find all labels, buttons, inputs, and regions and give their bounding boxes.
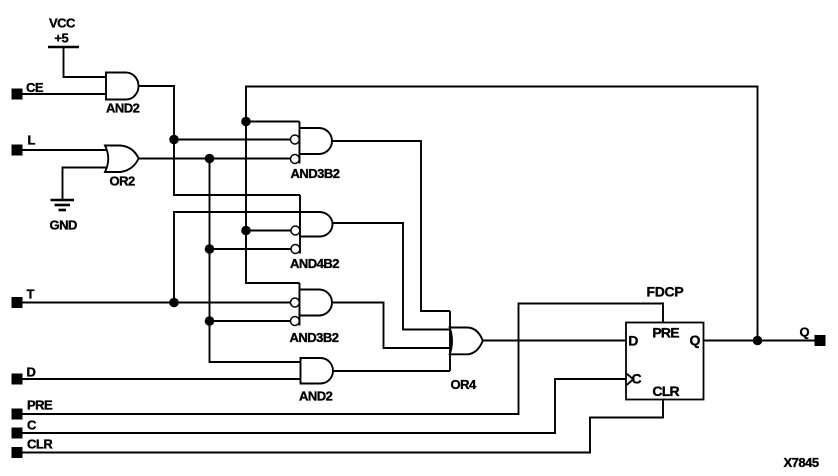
svg-text:D: D bbox=[628, 333, 638, 349]
junction dot bbox=[169, 135, 179, 145]
wire AND3B2 lower output to OR4 input 3 bbox=[332, 303, 450, 349]
input pad PRE bbox=[12, 409, 23, 420]
and-gate AND3B2 (upper) bbox=[290, 122, 339, 182]
or-gate OR4 bbox=[450, 311, 483, 392]
or-gate OR2 (L gate) bbox=[105, 146, 139, 173]
svg-text:OR2: OR2 bbox=[110, 174, 136, 189]
input pad D bbox=[12, 374, 23, 385]
wire tap T to AND4B2 input 2 bbox=[174, 212, 300, 303]
and-gate AND2 (D gate) bbox=[299, 358, 333, 404]
wire Q output bbox=[704, 340, 815, 342]
svg-text:AND2: AND2 bbox=[299, 389, 333, 404]
junction dot bbox=[169, 298, 179, 308]
svg-text:AND2: AND2 bbox=[106, 101, 140, 116]
svg-text:X7845: X7845 bbox=[784, 455, 819, 470]
svg-text:Q: Q bbox=[690, 332, 701, 348]
wire D to AND2 input 2 bbox=[23, 378, 301, 380]
svg-text:GND: GND bbox=[50, 218, 78, 233]
input pad T bbox=[12, 297, 23, 308]
wire AND2 output to OR4 input 4 bbox=[333, 370, 450, 372]
ground GND bbox=[50, 200, 78, 233]
svg-text:FDCP: FDCP bbox=[647, 284, 684, 300]
wire CE to AND2 input 2 bbox=[23, 93, 107, 95]
svg-text:Q: Q bbox=[800, 324, 810, 339]
svg-text:CE: CE bbox=[26, 80, 44, 95]
wire tap to AND4B2 input 3 bbox=[246, 230, 291, 232]
wire L to OR2 input 1 bbox=[23, 149, 110, 151]
and-gate AND2 (CE gate) bbox=[106, 73, 139, 100]
wire feedback Q net bbox=[246, 87, 758, 341]
and-gate AND3B2 (lower) bbox=[290, 283, 339, 345]
svg-text:OR4: OR4 bbox=[451, 377, 478, 392]
wire VCC to AND2 input 1 bbox=[64, 47, 107, 77]
svg-text:PRE: PRE bbox=[652, 325, 679, 341]
svg-text:CLR: CLR bbox=[652, 383, 679, 399]
wire AND4B2 output to OR4 input 2 bbox=[333, 223, 451, 330]
wire OR2 net vertical to AND2 input 1 bbox=[210, 159, 301, 363]
svg-text:AND4B2: AND4B2 bbox=[290, 256, 339, 271]
junction dot bbox=[241, 226, 251, 236]
input pad CE bbox=[12, 89, 23, 100]
wire tap to AND4B2 input 4 bbox=[210, 248, 291, 250]
wire CLR to FDCP CLR bbox=[23, 400, 664, 453]
wire OR2 output to AND3B2 input 3 bbox=[139, 158, 291, 160]
svg-text:+5: +5 bbox=[54, 31, 68, 46]
svg-text:CLR: CLR bbox=[27, 437, 53, 452]
power symbol VCC bbox=[48, 15, 79, 47]
svg-text:L: L bbox=[28, 133, 36, 148]
svg-text:T: T bbox=[27, 286, 35, 301]
clock triangle pin C bbox=[627, 374, 633, 385]
junction dot Q feedback bbox=[753, 336, 763, 346]
and-gate AND4B2 bbox=[290, 195, 339, 271]
output pad Q bbox=[815, 335, 826, 346]
wire PRE to FDCP PRE bbox=[23, 304, 664, 415]
input pad L bbox=[12, 145, 23, 156]
svg-text:PRE: PRE bbox=[27, 398, 53, 413]
svg-text:D: D bbox=[27, 365, 36, 380]
junction dot bbox=[205, 154, 215, 164]
wire OR2 input 2 to GND bbox=[63, 168, 109, 200]
wire OR4 output to FDCP D bbox=[483, 340, 626, 342]
svg-text:AND3B2: AND3B2 bbox=[291, 166, 340, 181]
wire AND2 output to AND4B2 input 1 bbox=[139, 86, 301, 195]
wire tap to AND3B2 input 3 bbox=[210, 320, 291, 322]
wire tap to AND3B2 input 2 bbox=[174, 139, 290, 141]
input pad CLR bbox=[12, 447, 23, 458]
svg-text:C: C bbox=[27, 418, 37, 433]
wire tap to AND3B2 input 1 bbox=[246, 121, 300, 123]
wire AND3B2 output to OR4 input 1 bbox=[332, 141, 450, 311]
junction dot bbox=[205, 316, 215, 326]
wire T to AND3B2 input 2 bbox=[23, 302, 291, 304]
flip-flop FDCP bbox=[626, 284, 704, 400]
svg-text:VCC: VCC bbox=[49, 15, 76, 30]
svg-text:AND3B2: AND3B2 bbox=[290, 330, 339, 345]
input pad C bbox=[12, 428, 23, 439]
wire C to FDCP clock bbox=[23, 379, 627, 433]
junction dot bbox=[241, 117, 251, 127]
junction dot bbox=[205, 244, 215, 254]
